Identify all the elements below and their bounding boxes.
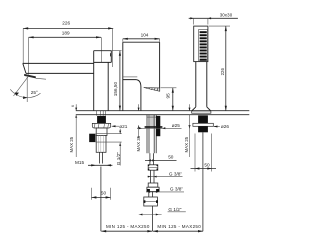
svg-text:G 3/8”: G 3/8” bbox=[169, 172, 182, 177]
MAX 25 deck dimension (view 1) bbox=[69, 115, 77, 157]
hose lower line (view 1) bbox=[100, 167, 102, 232]
deck thickness 6 label bbox=[71, 104, 77, 110]
svg-text:189: 189 bbox=[62, 30, 70, 35]
dimension 104 (view 2) bbox=[123, 33, 160, 42]
holder black block upper (view 3) bbox=[198, 115, 208, 123]
svg-text:50: 50 bbox=[204, 162, 210, 167]
svg-text:156,50: 156,50 bbox=[113, 81, 118, 96]
shower handle (view 3) bbox=[196, 62, 207, 107]
svg-text:30x30: 30x30 bbox=[220, 12, 233, 17]
svg-text:226: 226 bbox=[220, 68, 225, 76]
faucet body (side view) bbox=[94, 51, 109, 111]
dimension 156,50 (view 1 height) bbox=[111, 51, 122, 111]
svg-text:MAX 35: MAX 35 bbox=[136, 135, 141, 151]
svg-text:G 1/2”: G 1/2” bbox=[116, 152, 121, 165]
G 1/2 label (view 2 bottom) bbox=[168, 207, 186, 212]
svg-text:50: 50 bbox=[168, 155, 174, 160]
G 1/2 side outlet dimension (view 1) bbox=[96, 129, 122, 166]
svg-text:MIN 125 - MAX250: MIN 125 - MAX250 bbox=[106, 224, 150, 229]
M15 dimension bbox=[75, 160, 112, 166]
svg-text:ø21: ø21 bbox=[119, 124, 127, 129]
G 3/8 callout 2 bbox=[146, 187, 184, 193]
svg-text:226: 226 bbox=[62, 21, 70, 26]
aerator wedge (view 2) bbox=[144, 88, 160, 92]
svg-text:ø26: ø26 bbox=[221, 124, 229, 129]
shower head grill stripes bbox=[200, 31, 207, 60]
svg-text:6: 6 bbox=[71, 105, 75, 107]
diameter 21 label bbox=[111, 124, 127, 129]
G 3/8 fitting 2 (view 2) bbox=[147, 183, 159, 192]
svg-text:MIN 125 - MAX250: MIN 125 - MAX250 bbox=[157, 224, 201, 229]
diameter 25 leader (view 2) bbox=[137, 123, 182, 129]
svg-text:M15: M15 bbox=[75, 160, 85, 165]
deck pass-through lines (view 1) bbox=[97, 111, 106, 116]
diameter 26 label (view 3) bbox=[213, 124, 229, 129]
svg-text:95: 95 bbox=[166, 93, 171, 99]
dimension 50 (view 3) bbox=[191, 134, 217, 172]
dimension 95 (view 2) bbox=[161, 88, 177, 111]
svg-text:ø25: ø25 bbox=[172, 123, 180, 128]
shower hose line (view 3) bbox=[202, 132, 204, 231]
faucet spout (side view) bbox=[23, 63, 94, 73]
countertop deck lines bbox=[76, 111, 250, 115]
MAX 25 deck dimension (view 3) bbox=[184, 104, 191, 157]
svg-text:MAX 25: MAX 25 bbox=[184, 136, 189, 152]
hose below G 1/2 fitting bbox=[152, 206, 154, 231]
dimension 30x30 (view 3) bbox=[189, 12, 238, 24]
mounting nut (view 1) bbox=[97, 116, 106, 123]
svg-text:25°: 25° bbox=[31, 90, 38, 95]
hose between fittings (view 2) bbox=[150, 170, 154, 183]
svg-text:104: 104 bbox=[141, 33, 149, 38]
svg-text:50: 50 bbox=[101, 190, 107, 195]
holder black block lower (view 3) bbox=[198, 126, 208, 132]
svg-text:G 1/2”: G 1/2” bbox=[168, 207, 181, 212]
hand shower head (view 3) bbox=[194, 26, 208, 62]
side connector block (view 1) bbox=[89, 134, 95, 142]
hose break tick line bbox=[139, 214, 162, 216]
dimension 226 top bbox=[23, 21, 113, 67]
dimension 50 (view 1) bbox=[92, 188, 111, 200]
MIN 125 - MAX250 bracket (view 2/3) bbox=[153, 224, 203, 232]
faucet front view body (view 2) bbox=[123, 42, 160, 110]
mounting washer bar (view 2) bbox=[145, 126, 163, 128]
dimension 189 bbox=[29, 30, 102, 74]
dimension 50 hose spacing (view 2) bbox=[145, 155, 177, 162]
faucet lever (side view) bbox=[94, 51, 112, 63]
G 3/8 fitting 1 (view 2) bbox=[148, 165, 158, 171]
MAX 35 deck dimension (view 2) bbox=[136, 104, 141, 151]
MIN 125 - MAX250 bracket (view 1) bbox=[101, 224, 152, 232]
mounting stud black bar (view 2) bbox=[156, 116, 160, 136]
angle 25 degrees annotation bbox=[10, 77, 40, 102]
G 3/8 callout 1 bbox=[148, 172, 183, 178]
svg-text:G 3/8”: G 3/8” bbox=[170, 187, 183, 192]
under-deck hoses (view 2) bbox=[147, 115, 156, 154]
svg-text:MAX 25: MAX 25 bbox=[69, 136, 74, 152]
valve body below deck (view 1) bbox=[96, 128, 107, 135]
flange washer (view 1) bbox=[92, 123, 110, 128]
threaded rod M15 (view 1) bbox=[96, 135, 106, 152]
lower hose (view 2) bbox=[150, 153, 154, 165]
G 1/2 hex fitting (view 2) bbox=[143, 192, 158, 207]
aerator on spout tip bbox=[24, 74, 46, 79]
dimension 226 shower height (view 3) bbox=[209, 26, 230, 111]
holder washer band (view 3) bbox=[193, 123, 213, 126]
handle flare and holder top (view 3) bbox=[192, 107, 211, 113]
hose pair (view 1) bbox=[99, 152, 102, 163]
